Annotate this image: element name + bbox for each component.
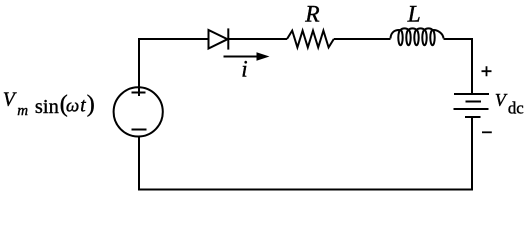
label Vm sin(wt) (3, 90, 95, 119)
label i (241, 57, 247, 82)
svg-text:i: i (241, 57, 247, 82)
label Vdc (495, 90, 524, 118)
wire top-right: inductor to corner, down to battery top plate (444, 39, 473, 94)
svg-text:L: L (407, 2, 421, 28)
inductor L (391, 28, 444, 45)
svg-text:t: t (80, 96, 86, 117)
label L (407, 2, 421, 28)
battery Vdc plates (454, 94, 490, 117)
resistor R (287, 31, 334, 48)
plus sign at battery (482, 66, 492, 76)
svg-text:): ) (87, 92, 95, 118)
svg-text:ω: ω (66, 96, 79, 117)
svg-text:R: R (304, 1, 319, 27)
label R (304, 1, 319, 27)
plus sign inside source (132, 92, 146, 94)
svg-text:dc: dc (508, 99, 524, 118)
svg-text:m: m (17, 103, 28, 119)
wire bottom: battery bottom plate down, bottom run, up to source bottom (139, 117, 472, 190)
minus sign inside source (132, 129, 147, 131)
svg-text:V: V (3, 90, 17, 111)
minus sign at battery (482, 131, 492, 133)
svg-text:sin: sin (35, 96, 59, 118)
current arrow i (224, 52, 270, 60)
wire: diode cathode to resistor (229, 38, 288, 40)
diode D (209, 28, 229, 49)
source circle (114, 87, 163, 136)
wire top-left: left vertical into source plus, top-left corner, run to diode anode (139, 39, 208, 96)
wire: resistor to inductor (334, 38, 391, 40)
